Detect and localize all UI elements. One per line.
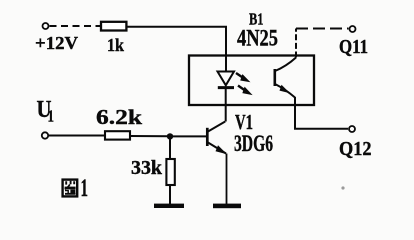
node A junction dot (167, 133, 173, 139)
terminal U1 (42, 132, 48, 138)
wire node A to R3 (169, 136, 171, 159)
resistor R3 33k (166, 159, 174, 185)
wire phototransistor emitter to Q12 (295, 97, 348, 129)
terminal +12V (43, 23, 49, 29)
svg-text:Q12: Q12 (339, 138, 372, 160)
light arrows (236, 73, 251, 94)
wire node A to V1 base (170, 135, 207, 137)
label U1 (37, 97, 55, 126)
svg-text:Q11: Q11 (339, 36, 368, 58)
ground under V1 emitter (213, 204, 241, 209)
svg-text:33k: 33k (131, 157, 163, 179)
svg-text:1k: 1k (107, 35, 124, 55)
LED (emitter diode of B1) (218, 56, 235, 122)
svg-text:6.2k: 6.2k (96, 105, 142, 129)
scan speck (341, 186, 344, 189)
resistor R1 (101, 22, 126, 31)
svg-text:3DG6: 3DG6 (234, 131, 273, 156)
phototransistor of B1 (275, 58, 296, 98)
transistor V1 (207, 122, 227, 205)
wire R1 to optocoupler anode (127, 27, 227, 56)
ground under R3 (154, 204, 184, 208)
terminal Q12 (349, 126, 355, 132)
svg-text:1: 1 (48, 107, 55, 126)
wire R3 to ground (169, 185, 171, 204)
wire U1 to R2 (49, 135, 105, 137)
wire +12V to R1 (dashed scan) (50, 25, 102, 27)
svg-text:+12V: +12V (35, 33, 78, 53)
wire R2 to node A (130, 135, 170, 137)
svg-text:1: 1 (81, 175, 89, 202)
terminal Q11 (350, 26, 356, 32)
label 图1 (figure 1) (63, 175, 88, 202)
resistor R2 6.2k (105, 131, 130, 139)
wire phototransistor collector to Q11 (295, 29, 297, 58)
optocoupler U-B1 package box (189, 56, 314, 106)
svg-text:4N25: 4N25 (237, 26, 278, 51)
